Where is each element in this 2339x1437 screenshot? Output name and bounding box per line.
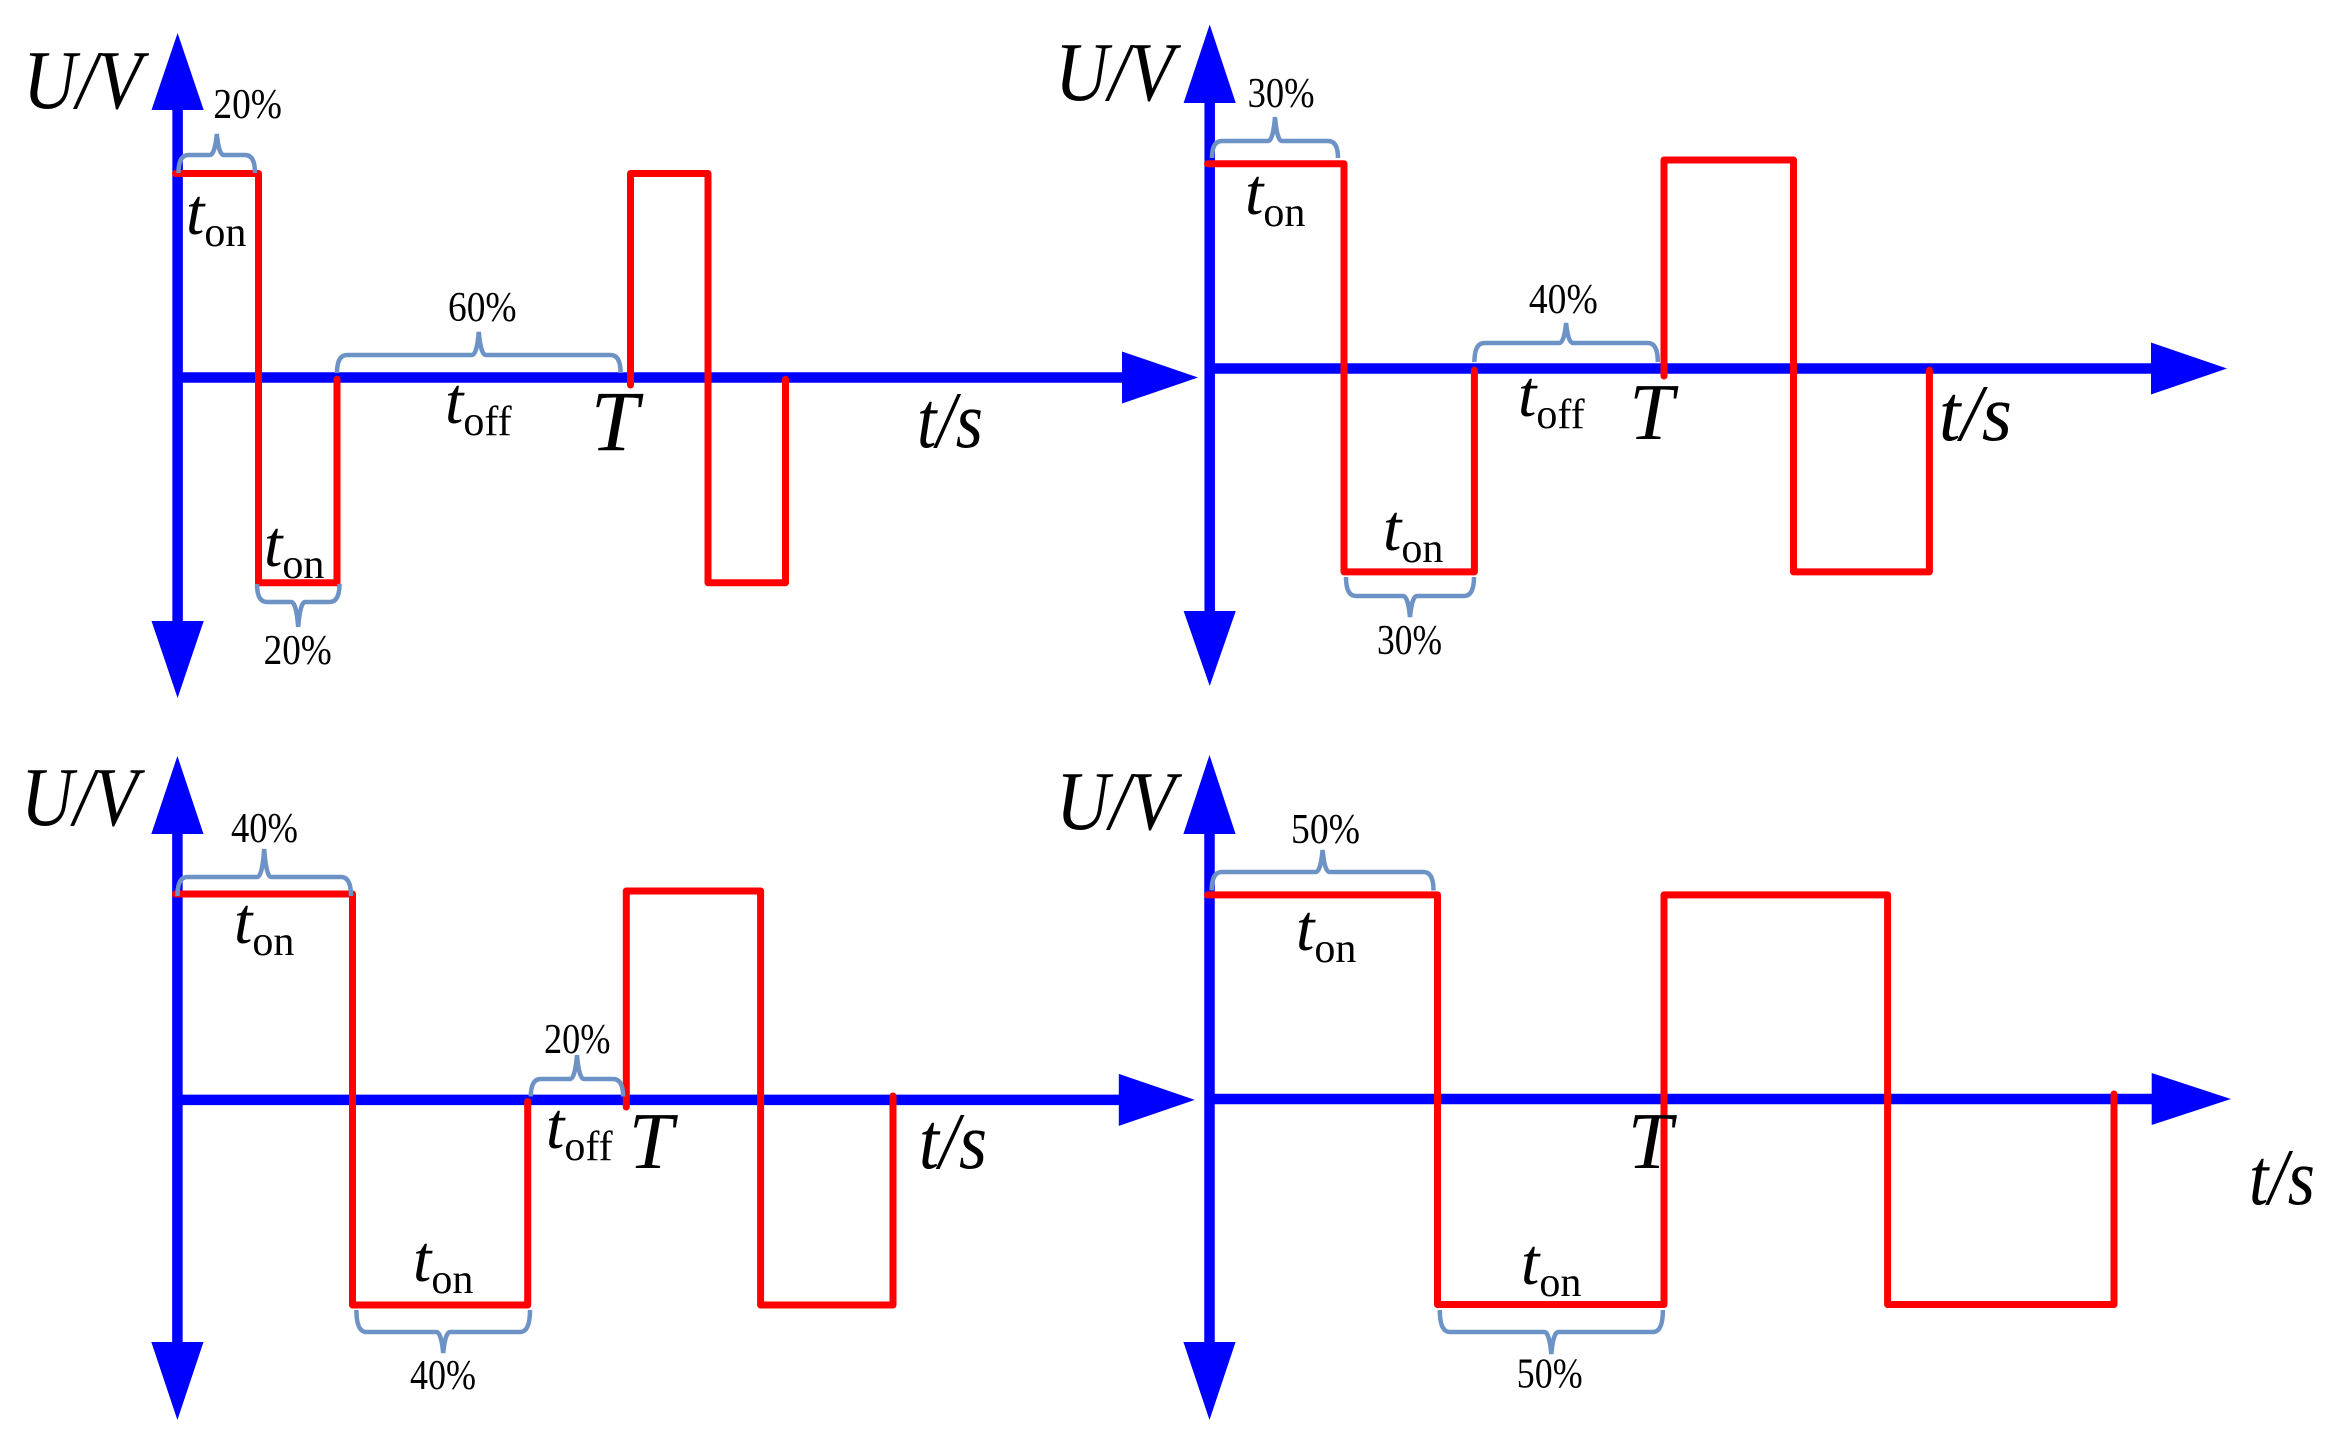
waveform plot4: [1208, 895, 2115, 1305]
x-axis right arrowhead plot4: [2152, 1073, 2231, 1125]
x-axis line plot3: [177, 1095, 1120, 1106]
y-axis line plot1: [172, 105, 183, 625]
x-axis line plot2: [1205, 363, 2153, 374]
waveform period 2 plot2: [1664, 160, 1929, 572]
brace ton 50% bottom plot4: [1440, 1310, 1663, 1354]
svg-text:t/s: t/s: [917, 377, 983, 465]
y-axis line plot4: [1204, 830, 1215, 1346]
svg-text:T: T: [591, 373, 644, 469]
svg-text:40%: 40%: [1529, 277, 1598, 323]
svg-text:60%: 60%: [448, 285, 517, 331]
svg-text:50%: 50%: [1291, 807, 1360, 853]
svg-text:40%: 40%: [410, 1353, 476, 1399]
waveform period 1 plot3: [175, 894, 527, 1305]
svg-text:20%: 20%: [264, 628, 332, 674]
x-axis line plot1: [178, 372, 1124, 383]
y-axis down arrowhead plot3: [151, 1342, 203, 1420]
waveform period 2 plot1: [631, 174, 786, 583]
brace ton 30% bottom plot2: [1346, 577, 1474, 617]
svg-text:T: T: [629, 1098, 679, 1186]
brace ton 40% top plot3: [178, 849, 352, 896]
svg-text:20%: 20%: [544, 1017, 611, 1063]
svg-text:30%: 30%: [1248, 71, 1315, 117]
y-axis up arrowhead plot4: [1183, 755, 1235, 834]
svg-text:40%: 40%: [231, 806, 298, 852]
brace toff 40% plot2: [1474, 323, 1657, 362]
brace ton 40% bottom plot3: [356, 1310, 530, 1353]
svg-text:T: T: [1628, 1098, 1678, 1186]
brace ton 20% top plot1: [179, 134, 256, 173]
svg-text:U/V: U/V: [1055, 26, 1182, 119]
brace toff 60% plot1: [337, 332, 621, 373]
brace ton 50% top plot4: [1212, 850, 1434, 891]
svg-text:50%: 50%: [1517, 1352, 1583, 1398]
x-axis right arrowhead plot3: [1119, 1074, 1195, 1126]
waveform period 2 plot3: [626, 891, 893, 1305]
x-axis right arrowhead plot2: [2151, 343, 2227, 395]
svg-text:U/V: U/V: [21, 751, 146, 844]
y-axis up arrowhead plot2: [1184, 25, 1236, 104]
x-axis right arrowhead plot1: [1122, 352, 1198, 404]
y-axis down arrowhead plot2: [1184, 611, 1236, 686]
svg-text:T: T: [1629, 369, 1679, 457]
svg-text:U/V: U/V: [23, 34, 150, 127]
svg-text:30%: 30%: [1377, 618, 1442, 664]
brace toff 20% plot3: [531, 1055, 623, 1097]
y-axis up arrowhead plot1: [152, 33, 204, 110]
y-axis down arrowhead plot1: [152, 621, 204, 698]
svg-text:t/s: t/s: [1939, 370, 2012, 458]
svg-text:20%: 20%: [213, 82, 282, 128]
svg-text:U/V: U/V: [1056, 755, 1183, 848]
waveform period 1 plot1: [176, 174, 338, 583]
y-axis down arrowhead plot4: [1183, 1342, 1235, 1420]
brace ton 20% bottom plot1: [257, 584, 340, 627]
svg-text:t/s: t/s: [919, 1098, 987, 1186]
y-axis line plot3: [172, 830, 183, 1346]
waveform period 1 plot2: [1208, 164, 1475, 572]
brace ton 30% top plot2: [1212, 117, 1338, 158]
svg-text:t/s: t/s: [2249, 1134, 2315, 1222]
y-axis line plot2: [1204, 98, 1215, 615]
y-axis up arrowhead plot3: [151, 756, 203, 834]
x-axis line plot4: [1210, 1094, 2153, 1105]
